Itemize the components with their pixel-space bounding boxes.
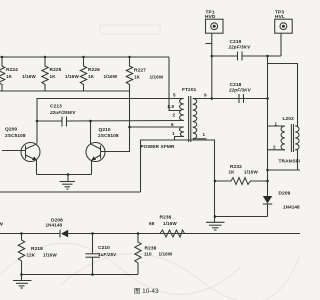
inductor L202 xyxy=(268,116,303,170)
resistor R227 xyxy=(126,56,164,91)
svg-text:TRANSFO: TRANSFO xyxy=(279,159,301,165)
resistor R238 xyxy=(135,232,173,274)
wire top bus xyxy=(0,56,169,58)
svg-text:1K: 1K xyxy=(88,74,95,79)
wire Q209 collector to transformer pin 5 xyxy=(37,99,183,144)
svg-text:. ... .. ... . .. ..: . ... .. ... . .. .. xyxy=(70,8,98,14)
svg-text:1K: 1K xyxy=(6,74,13,79)
ground bottom left xyxy=(13,273,32,288)
svg-text:1N4148: 1N4148 xyxy=(283,205,300,210)
svg-text:68: 68 xyxy=(149,221,155,226)
wire transformer pin 6 to Q210 base node xyxy=(130,126,184,128)
svg-text:12K: 12K xyxy=(27,253,36,258)
svg-text:1K: 1K xyxy=(229,170,236,175)
capacitor C213 xyxy=(36,104,77,127)
svg-text:1K: 1K xyxy=(50,74,57,79)
diode D208 xyxy=(46,218,69,238)
resistor R218 xyxy=(18,232,57,274)
svg-text:Q209: Q209 xyxy=(5,127,17,133)
svg-text:1/16W: 1/16W xyxy=(43,253,57,258)
svg-text:FT201: FT201 xyxy=(182,87,197,93)
svg-text:2: 2 xyxy=(273,145,276,150)
svg-text:R224: R224 xyxy=(6,67,18,73)
svg-text:1N4148: 1N4148 xyxy=(46,223,63,228)
faint watermark arcs bottom xyxy=(0,243,300,300)
svg-text:R227: R227 xyxy=(134,68,146,74)
capacitor C210 xyxy=(86,232,118,276)
test point TP1 xyxy=(205,10,223,100)
svg-text:R236: R236 xyxy=(160,215,172,221)
svg-text:C210: C210 xyxy=(98,245,110,251)
svg-text:1: 1 xyxy=(172,131,175,136)
transformer FT201 xyxy=(168,87,208,142)
svg-text:6: 6 xyxy=(171,122,174,127)
svg-text:........ ...: ........ ... xyxy=(62,16,79,22)
svg-text:9: 9 xyxy=(204,93,207,98)
resistor R232 xyxy=(214,164,269,184)
svg-text:L202: L202 xyxy=(283,116,295,122)
svg-text:1/16W: 1/16W xyxy=(104,74,118,79)
svg-text:R226: R226 xyxy=(88,67,100,73)
wire bus to transformer tap 8,9 xyxy=(169,57,181,111)
ground emitters xyxy=(60,173,76,189)
wire right main vertical xyxy=(266,55,269,196)
svg-text:2SC5108: 2SC5108 xyxy=(5,133,26,139)
svg-text:22pF/3KV: 22pF/3KV xyxy=(228,45,252,50)
svg-text:1: 1 xyxy=(203,132,206,137)
svg-text:图 10-43: 图 10-43 xyxy=(134,287,159,295)
svg-text:D209: D209 xyxy=(279,191,291,197)
wire diode bottom to ground column xyxy=(215,216,268,218)
wire Q210 collector xyxy=(90,121,92,144)
svg-text:1/16W: 1/16W xyxy=(163,221,177,226)
wire R227 bottom to Q210 base node xyxy=(101,91,130,152)
svg-text:2SC5108: 2SC5108 xyxy=(98,133,119,139)
svg-text:R225: R225 xyxy=(50,67,62,73)
wire emitters common xyxy=(37,174,92,176)
svg-text:1/16W: 1/16W xyxy=(244,170,258,175)
wire bottom main xyxy=(0,233,60,235)
transistor Q210 xyxy=(86,127,119,175)
resistor R225 xyxy=(42,56,80,91)
svg-text:C213: C213 xyxy=(50,104,62,110)
svg-text:POWER XFMR: POWER XFMR xyxy=(141,144,175,150)
svg-text:22uF/25WV: 22uF/25WV xyxy=(49,110,76,115)
svg-text:1K: 1K xyxy=(134,75,141,80)
wire L202 bottom out right xyxy=(266,169,300,172)
ground right column xyxy=(206,215,225,230)
capacitor C218 xyxy=(228,82,252,103)
resistor R226 xyxy=(80,56,118,91)
svg-text:8,9: 8,9 xyxy=(168,104,175,109)
svg-text:1/16W: 1/16W xyxy=(22,74,36,79)
svg-text:22pF/3KV: 22pF/3KV xyxy=(228,88,252,93)
wire secondary top to right column xyxy=(193,98,268,100)
faint ghost text artifact top xyxy=(62,8,160,34)
svg-text:R218: R218 xyxy=(31,246,43,252)
wire bottom return xyxy=(22,274,139,276)
svg-text:1/16W: 1/16W xyxy=(65,74,79,79)
svg-text:Q210: Q210 xyxy=(99,127,111,133)
resistor R224 xyxy=(0,56,36,91)
svg-text:1/16W: 1/16W xyxy=(150,75,164,80)
wire transformer pin 1 xyxy=(175,137,184,141)
svg-text:5: 5 xyxy=(173,93,176,98)
resistor R236 xyxy=(149,215,185,238)
test point TP3 xyxy=(275,10,293,57)
wire ground bus left xyxy=(0,191,141,193)
wire C213 to Q210 collector and transformer pin 2 xyxy=(67,120,184,123)
wire to L202 secondary top xyxy=(268,64,298,127)
box POWER XFMR xyxy=(141,140,215,222)
wire resistor bottom bus xyxy=(0,90,130,92)
diode D209 xyxy=(263,191,300,217)
capacitor C219 xyxy=(211,39,282,61)
svg-text:110: 110 xyxy=(144,252,152,257)
svg-text:1/16W: 1/16W xyxy=(159,252,173,257)
transistor Q209 xyxy=(2,127,40,175)
svg-text:1uF/25V: 1uF/25V xyxy=(98,252,117,257)
svg-text:2: 2 xyxy=(173,113,176,118)
